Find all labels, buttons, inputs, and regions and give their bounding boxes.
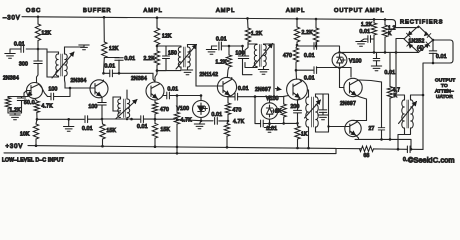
label 470 ampl3 [283, 53, 292, 59]
transistor Q2 2N384 buffer [90, 80, 108, 102]
svg-text:0.01: 0.01 [436, 54, 447, 60]
wire: upper emitter to lower base-collector [353, 97, 367, 121]
capacitor 150 ampl1 [157, 46, 170, 71]
resistor 4.7K osc [34, 99, 39, 120]
capacitor 0.01 drive B [314, 67, 317, 74]
capacitor 0.01 drive A [314, 43, 317, 50]
label 68 [364, 153, 370, 159]
ground osc emitter [10, 113, 20, 120]
node: ampl1 emitter junction [154, 118, 157, 121]
resistor 10K [33, 119, 38, 145]
svg-text:ATTEN–: ATTEN– [435, 89, 454, 94]
label 0.01 drive B [304, 75, 315, 81]
label 12K ampl1 [162, 34, 172, 40]
label +30V [6, 144, 24, 150]
svg-text:4.7K: 4.7K [181, 118, 193, 124]
resistor 470 ampl2 emitter [225, 103, 230, 121]
resistor 68 [360, 146, 374, 151]
ground ampl2 base filter [206, 46, 216, 54]
resistor 1.2K rect a [371, 19, 376, 52]
node: rect feed junctions [373, 51, 398, 54]
label 1K ampl3 rail [301, 132, 308, 138]
svg-text:©SeekIC.com: ©SeekIC.com [408, 155, 455, 164]
svg-text:TO: TO [441, 83, 448, 88]
svg-text:0.01: 0.01 [304, 75, 315, 81]
svg-text:2.2K: 2.2K [302, 30, 314, 36]
node: T2b junction [126, 118, 133, 121]
svg-text:AMPL: AMPL [144, 8, 163, 14]
ground T3 [258, 70, 268, 75]
label 200 T4 [291, 104, 300, 110]
svg-text:4.7K: 4.7K [42, 104, 54, 110]
svg-text:0.01: 0.01 [267, 126, 278, 132]
label AMPL 3 [286, 8, 305, 14]
svg-text:470: 470 [283, 53, 292, 59]
transformer T4 driver [305, 90, 329, 148]
svg-text:2.2K: 2.2K [144, 56, 156, 62]
ground dc bus left [63, 118, 73, 131]
svg-text:LOW–LEVEL D–C INPUT: LOW–LEVEL D–C INPUT [2, 158, 64, 164]
node: AMPL1 rail junction [156, 16, 159, 19]
ground V100 ampl3 [264, 128, 274, 133]
svg-text:50.0: 50.0 [24, 100, 35, 106]
label 1.2K ampl2 [216, 60, 228, 66]
svg-text:K: K [394, 93, 398, 99]
svg-text:4.7K: 4.7K [233, 119, 245, 125]
transistor Q1 2N384 osc [27, 83, 48, 99]
label 1.2K osc [10, 108, 22, 114]
resistor 1.2K rect b [382, 20, 387, 53]
label 4.7K bus [181, 118, 193, 124]
diode V100 ampl3 [261, 97, 277, 128]
label 50.0 [24, 100, 35, 106]
wire: push-pull drive B [316, 68, 351, 78]
ground smoothing [371, 66, 381, 71]
capacitor 0.01 dc bus 3 [215, 118, 218, 125]
capacitor 0.01 buffer top bypass [104, 58, 123, 74]
svg-text:0.01: 0.01 [212, 112, 223, 118]
capacitor 0.01 rect a [361, 36, 374, 43]
node: rectifier feed junctions [373, 18, 387, 21]
label 0.01 bus3 [212, 112, 223, 118]
capacitor 0.01 ampl3 bypass [261, 120, 264, 127]
watermark SeekIC [408, 155, 455, 164]
node: drive B junction [338, 67, 341, 70]
label 0.01 ampl2 filter [216, 36, 227, 42]
label 1N252 bridge [409, 39, 425, 52]
label V100 ampl1 [177, 106, 190, 112]
svg-text:1.2K: 1.2K [10, 108, 22, 114]
capacitor 100 buffer emitter [98, 103, 106, 120]
resistor 1K ampl3 emitter [281, 96, 286, 123]
svg-text:0.01: 0.01 [385, 70, 396, 76]
label 0.01 buffer top [125, 56, 136, 62]
svg-text:12K: 12K [109, 46, 119, 52]
capacitor 50.0 osc bypass [8, 97, 26, 114]
svg-text:2N384: 2N384 [71, 78, 87, 84]
svg-text:2N697: 2N697 [340, 101, 356, 107]
svg-text:V100: V100 [177, 106, 190, 112]
diode V100 ampl1 [193, 101, 210, 121]
rectifier bridge 1N252 [396, 26, 435, 52]
label OUTPUT AMPL [334, 8, 384, 14]
capacitor 27 output [378, 128, 385, 140]
svg-text:0.01: 0.01 [105, 64, 116, 70]
label 2N384 buffer [71, 78, 87, 84]
svg-text:1K: 1K [275, 109, 282, 115]
label LOW-LEVEL D-C INPUT [2, 158, 64, 164]
node: output ampl rail junction [315, 18, 318, 21]
ground V100 ampl1 [194, 120, 204, 129]
transformer T2b buffer-ampl coupling [113, 90, 137, 119]
label 470 ampl2 emitter [233, 108, 242, 114]
node: buffer collector junction [102, 72, 105, 75]
resistor 4.7K ampl2 [224, 121, 229, 147]
node: AMPL2 rail junction [246, 17, 249, 20]
label 100 osc [49, 87, 58, 93]
label BUFFER [83, 8, 111, 14]
wire: output stage emitter bus [355, 139, 411, 148]
svg-text:470: 470 [233, 108, 242, 114]
label 2.2K ampl1 [144, 56, 156, 62]
node: ampl3 base junction [273, 95, 276, 98]
label 0.01 ampl3 bypass [267, 126, 278, 132]
node: buffer output junction [118, 72, 121, 75]
capacitor 0.01 dc bus 2 [141, 116, 144, 123]
node: output line junction [397, 148, 413, 151]
svg-text:200: 200 [291, 104, 300, 110]
transformer T5 output [396, 52, 424, 148]
label 0.01 rect a [360, 29, 371, 35]
wire: output return line with 68 ohm resistor [336, 95, 423, 149]
svg-text:0.01: 0.01 [238, 86, 249, 92]
node: ampl1 collector load junction [156, 45, 159, 48]
svg-text:10K: 10K [20, 132, 30, 138]
svg-text:100: 100 [49, 87, 58, 93]
label 27 [369, 126, 375, 132]
capacitor 100 ampl2 collector bypass [241, 44, 249, 59]
ground T1 secondary [79, 45, 89, 50]
resistor 1.2K ampl2 base [226, 46, 231, 78]
wire: osc emitter node [8, 91, 28, 97]
svg-text:0.01: 0.01 [304, 53, 315, 59]
svg-text:OUTPUT AMPL: OUTPUT AMPL [334, 8, 384, 14]
wire: T1 secondary to buffer base [65, 76, 91, 88]
svg-text:AMPL: AMPL [216, 8, 235, 14]
+30V supply rail [4, 146, 336, 154]
svg-text:300: 300 [19, 62, 28, 68]
label 0.01 drive A [304, 53, 315, 59]
label 0.01 buffer out [105, 64, 116, 70]
svg-text:UATOR: UATOR [436, 94, 453, 99]
capacitor 0.01 ampl2 base filter [212, 42, 243, 50]
capacitor 0.01 ampl1 out [167, 92, 201, 101]
capacitor 0.01 ampl3 coupling [235, 93, 238, 100]
node: ampl3 input junctions [254, 95, 271, 98]
svg-text:15K: 15K [107, 128, 117, 134]
resistor 1.2K osc [5, 97, 10, 114]
capacitor 0.01 rectifier output [429, 40, 437, 64]
wire: buffer output [104, 73, 156, 82]
label AMPL 1 [144, 8, 163, 14]
svg-text:150: 150 [168, 51, 177, 57]
node: V100 ampl1 top [176, 94, 203, 97]
label 12K buffer [109, 46, 119, 52]
node: ampl3 emitter bottom junction [282, 122, 298, 125]
svg-text:AMPL: AMPL [286, 8, 305, 14]
svg-text:2N1142: 2N1142 [200, 72, 219, 78]
label V100 ampl3 [266, 96, 279, 102]
label 4.7K osc [42, 104, 54, 110]
svg-text:1.2K: 1.2K [361, 22, 373, 28]
node: ampl2 base wire junctions [228, 45, 244, 48]
label 0.01 bus2 [137, 124, 148, 130]
svg-text:1N252: 1N252 [409, 39, 425, 45]
label 100 ampl2 [236, 51, 245, 57]
ground T4 secondary [318, 115, 328, 120]
capacitor 0.01 smoothing [373, 52, 380, 66]
label -30V [3, 15, 21, 21]
node: ampl1 tank bottom [155, 69, 158, 82]
resistor 2.2K ampl1 [154, 46, 159, 71]
wire: T4 secondary to lower base [323, 94, 345, 132]
svg-text:BUFFER: BUFFER [83, 8, 111, 14]
resistor 2.2K output ampl [313, 19, 318, 46]
node: drive A junctions [315, 45, 341, 54]
transistor Q7 2N697 lower output [345, 120, 361, 139]
label 1.2K rect a [361, 22, 373, 28]
svg-text:0.: 0. [403, 157, 408, 163]
label 12K osc [42, 31, 52, 37]
node: osc tank junction [37, 48, 40, 51]
node: ampl3 collector junction [296, 44, 299, 47]
resistor 2.2K ampl3 [294, 19, 299, 45]
svg-text:2N697: 2N697 [255, 87, 271, 93]
svg-text:12K: 12K [42, 31, 52, 37]
svg-text:470: 470 [160, 107, 169, 113]
ground osc input [5, 54, 15, 59]
wire: push-pull drive A [297, 45, 340, 52]
label AMPL 2 [216, 8, 235, 14]
resistor 470 ampl3 [293, 45, 298, 62]
capacitor 200 ampl3 emitter [294, 110, 302, 126]
svg-text:RECTIFIERS: RECTIFIERS [400, 19, 443, 25]
capacitor 100 ampl2 [238, 46, 252, 75]
label 0.01 bus1 [82, 126, 93, 132]
resistor 15K buffer [100, 119, 105, 146]
label V100 output [349, 59, 362, 65]
svg-text:0.01: 0.01 [14, 42, 25, 48]
wire: upper collector to 27 cap [360, 80, 382, 127]
label 2N384 ampl1 [131, 76, 147, 82]
svg-text:100: 100 [236, 51, 245, 57]
label 10K [20, 132, 30, 138]
transistor Q5 2N697 ampl3 [284, 79, 308, 110]
label 0.01 smoothing [385, 70, 396, 76]
svg-text:OSC: OSC [26, 8, 41, 14]
label 2.2K output [302, 30, 314, 36]
node: +30V rail junctions [35, 144, 310, 154]
label 1.2K ampl2 collector [251, 31, 263, 37]
label 2N697 ampl3 [255, 87, 281, 93]
label 300 [19, 62, 28, 68]
label OUTPUT TO ATTENUATOR [435, 78, 455, 100]
svg-text:0.01: 0.01 [216, 36, 227, 42]
label 4.7K ampl2 [233, 119, 245, 125]
svg-text:100: 100 [89, 104, 98, 110]
resistor 4.7K dc input [174, 96, 179, 125]
node: buffer base junction [69, 87, 72, 90]
capacitor 0.01 buffer output [110, 70, 113, 77]
transistor Q3 2N384 ampl1 [146, 82, 166, 100]
resistor 15K ampl1 [152, 119, 157, 147]
wire: rectifier dc feed [340, 51, 419, 53]
label 100 buffer [89, 104, 98, 110]
svg-text:(4): (4) [417, 46, 424, 52]
label RECTIFIERS [400, 19, 443, 25]
label 0.01 ampl1 out [168, 87, 179, 93]
svg-text:68: 68 [364, 153, 370, 159]
label 0.01 rectifier output [436, 54, 447, 60]
capacitor 0.01 dc bus 1 [85, 116, 88, 123]
label 2N1142 [200, 72, 219, 78]
wire: ampl3 emitter bypass [255, 97, 298, 124]
svg-text:27: 27 [369, 126, 375, 132]
label 1K ampl3 [275, 109, 282, 115]
node: dc feedback junction [36, 118, 39, 121]
label 4.7 K output bias stacked [393, 88, 401, 100]
node: output emitter junctions [380, 138, 391, 141]
transformer T1 osc [38, 45, 84, 78]
label 15K buffer [107, 128, 117, 134]
wire: ampl2 to ampl3 coupling [227, 96, 284, 98]
resistor 470 ampl1 emitter [152, 100, 157, 119]
resistor 4.7K output bias [387, 52, 392, 139]
diode V100 output [332, 53, 347, 68]
svg-text:1K: 1K [301, 132, 308, 138]
capacitor 100 osc collector [48, 88, 71, 100]
svg-text:0.01: 0.01 [82, 126, 93, 132]
ground T2 [182, 70, 192, 75]
node: dc input junction [176, 118, 179, 153]
wire: low level dc bus [37, 119, 228, 121]
svg-text:V100: V100 [266, 96, 279, 102]
svg-text:0.01: 0.01 [137, 124, 148, 130]
label 0.5 output cap [403, 157, 408, 163]
transistor Q6 2N697 upper output [340, 68, 363, 97]
svg-text:OUTPUT: OUTPUT [435, 78, 455, 83]
ground rect a [356, 42, 366, 47]
wire: ampl3 collector [295, 63, 314, 80]
node: buffer emitter junction [101, 118, 104, 121]
label 2N697 upper [340, 101, 356, 107]
label 470 ampl1 [160, 107, 169, 113]
resistor 12K ampl1 [154, 18, 159, 46]
label 0.01 ampl3 coupling [238, 86, 249, 92]
label 15K ampl1 [161, 127, 171, 133]
resistor 1.2K ampl2 collector [245, 18, 250, 44]
svg-text:K: K [388, 31, 392, 37]
label 1.2 K rect b stacked [388, 26, 396, 38]
node: OSC rail junction [37, 15, 40, 18]
capacitor 300 [34, 49, 42, 83]
label 0.01 osc [14, 42, 25, 48]
label 150 [168, 51, 177, 57]
capacitor 0.01 osc [10, 46, 38, 53]
svg-text:+30V: +30V [6, 144, 24, 150]
resistor R 12K osc [35, 17, 40, 49]
node: ampl2 emitter junction [227, 120, 230, 123]
node: AMPL3 rail junction [296, 18, 299, 21]
svg-text:1.2K: 1.2K [251, 31, 263, 37]
resistor 12K buffer [102, 17, 107, 73]
svg-text:0.01: 0.01 [125, 56, 136, 62]
capacitor 0.5 output [407, 146, 410, 153]
node: BUFFER rail junction [103, 16, 106, 19]
svg-text:–30V: –30V [3, 15, 21, 21]
svg-text:V100: V100 [349, 59, 362, 65]
-30V supply rail [22, 17, 396, 28]
svg-text:0.01: 0.01 [168, 87, 179, 93]
svg-text:0.01: 0.01 [360, 29, 371, 35]
capacitor T4 secondary [319, 94, 327, 115]
svg-text:1.2K: 1.2K [216, 60, 228, 66]
svg-text:2N384: 2N384 [131, 76, 147, 82]
transistor Q4 2N1142 ampl2 [217, 77, 236, 103]
transformer T3 ampl2 [245, 44, 274, 97]
resistor 1K ampl3 to rail [295, 126, 300, 148]
label OSC [26, 8, 41, 14]
wire: rectifier output [423, 40, 453, 95]
transformer T2 ampl1 [157, 45, 218, 87]
label 2N384 osc [3, 76, 19, 82]
svg-text:15K: 15K [161, 127, 171, 133]
svg-text:12K: 12K [162, 34, 172, 40]
svg-text:2N384: 2N384 [3, 76, 19, 82]
